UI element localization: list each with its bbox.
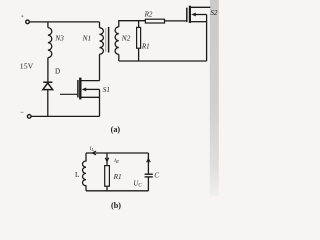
current arrow iL <box>92 151 96 155</box>
wire top rail left <box>29 21 99 23</box>
svg-text:iL: iL <box>90 146 95 152</box>
inductor N2 (secondary) <box>115 27 119 55</box>
winding N2 top wire <box>119 21 146 27</box>
terminal - (bottom) <box>27 115 31 119</box>
svg-text:iR: iR <box>114 158 119 164</box>
wire bottom (b) <box>86 190 148 192</box>
wire C bottom stub <box>147 177 149 191</box>
current arrow up C <box>147 159 151 163</box>
wire N3 to diode <box>47 58 49 82</box>
svg-text:(b): (b) <box>111 201 121 210</box>
inductor N3 <box>48 28 52 58</box>
mosfet S1 <box>60 78 100 117</box>
resistor R1 (a) <box>137 27 141 48</box>
circuit b: wire top <box>86 152 148 154</box>
inductor N1 (primary) <box>100 28 104 54</box>
wire N2 bottom <box>118 54 120 61</box>
svg-text:N1: N1 <box>82 34 92 43</box>
svg-text:R1: R1 <box>113 173 122 181</box>
minus terminal mark <box>21 111 24 113</box>
wire N3 tap <box>47 22 49 28</box>
wire N1 top <box>99 22 101 28</box>
inductor L <box>83 153 86 191</box>
wire R1b top stub <box>106 153 108 166</box>
mosfet S2 <box>187 6 211 61</box>
plus terminal mark <box>21 15 23 17</box>
terminal + (top) <box>26 20 30 24</box>
wire bottom rail right circuit <box>119 60 207 62</box>
svg-text:15V: 15V <box>20 62 34 71</box>
wire diode to bottom rail <box>47 90 49 117</box>
svg-text:N2: N2 <box>121 34 131 43</box>
svg-text:R2: R2 <box>144 10 153 18</box>
svg-text:L: L <box>75 171 79 179</box>
resistor R1 (b) <box>105 166 110 187</box>
scan band right edge <box>210 0 219 196</box>
wire C top stub <box>147 153 149 174</box>
wire R1b bottom stub <box>106 186 108 191</box>
svg-text:S2: S2 <box>210 9 218 17</box>
svg-text:D: D <box>55 67 60 75</box>
svg-text:S1: S1 <box>103 86 110 94</box>
svg-text:(a): (a) <box>111 125 121 134</box>
current arrow iR <box>105 158 109 162</box>
svg-text:C: C <box>154 172 159 180</box>
transformer core <box>108 27 110 53</box>
wire N1 to S1 drain <box>99 54 101 80</box>
diode D <box>43 82 53 89</box>
resistor R2 <box>145 19 164 23</box>
wire R2 to S2 gate <box>165 20 187 22</box>
wire bottom rail left <box>31 115 99 117</box>
capacitor C <box>145 174 153 177</box>
svg-text:N3: N3 <box>54 33 64 42</box>
wire R1 bottom stub <box>138 48 140 61</box>
wire R1 top stub <box>138 21 140 28</box>
svg-text:R1: R1 <box>141 43 150 51</box>
